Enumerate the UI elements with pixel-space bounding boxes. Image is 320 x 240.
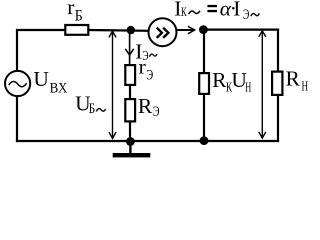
node B junction dot (base node, top of emitter branch) (127, 26, 135, 34)
node junction dot at bottom of emitter branch (126, 137, 135, 146)
wire: right vertical lower (R_Н to bottom corner) (277, 96, 279, 143)
arrowhead: I_Э current arrow pointing down (125, 49, 133, 55)
current source circle (149, 18, 177, 46)
wire: top segment from node K to top-right corner (203, 29, 279, 31)
resistor R_К (vertical box) (199, 73, 209, 94)
wire: left vertical lower (source circle to bottom corner) (16, 96, 18, 142)
resistor r_Б (horizontal box) (65, 25, 88, 35)
chevron 1 inside current source (157, 28, 162, 38)
resistor R_Э (vertical box) (125, 99, 135, 121)
node K junction dot (collector node) (199, 25, 208, 34)
voltage arrow U_Н (double-headed, collector node to bottom rail) (261, 32, 263, 138)
wire: right vertical upper (corner to R_Н) (277, 29, 279, 73)
tilde after Б in U_Б~ label (96, 109, 105, 112)
ground stub below emitter node (129, 141, 131, 153)
tilde after Э in top label (251, 13, 260, 16)
equals sign in top label (drawn bold) (207, 5, 217, 7)
ground bar symbol (113, 153, 151, 157)
wire: top-left segment from left corner to r_Б (17, 29, 65, 31)
chevron 2 inside current source (163, 28, 168, 38)
tilde after К in top label (189, 11, 200, 14)
wire: bottom horizontal rail (16, 140, 279, 142)
resistor R_Н (vertical box) (272, 72, 282, 95)
wire: R_К branch upper (node K down to R_К) (203, 30, 205, 74)
wire: emitter branch from node B down to r_Э (current direction line) (129, 30, 131, 65)
sine wave inside AC source (9, 82, 27, 87)
resistor r_Э (vertical box) (125, 65, 135, 85)
wire: emitter branch between r_Э and R_Э (129, 86, 131, 100)
voltage arrow U_Б~ (double-headed, base node to bottom rail) (112, 32, 114, 138)
wire: emitter branch below R_Э to bottom rail (129, 122, 131, 141)
wire: R_К branch lower (R_К to bottom rail) (203, 95, 205, 142)
wire: top segment from r_Б to current source, through node B (89, 29, 150, 32)
tilde after Э in I_Э~ label (149, 54, 157, 57)
wire: left vertical upper (corner to source circle) (16, 29, 18, 72)
wire: output of current source toward node K (177, 29, 195, 31)
AC source U_ВХ circle (5, 71, 30, 96)
arrowhead: I_К current arrow pointing right into node K (188, 26, 195, 34)
node junction dot at bottom of R_К branch (200, 136, 209, 145)
